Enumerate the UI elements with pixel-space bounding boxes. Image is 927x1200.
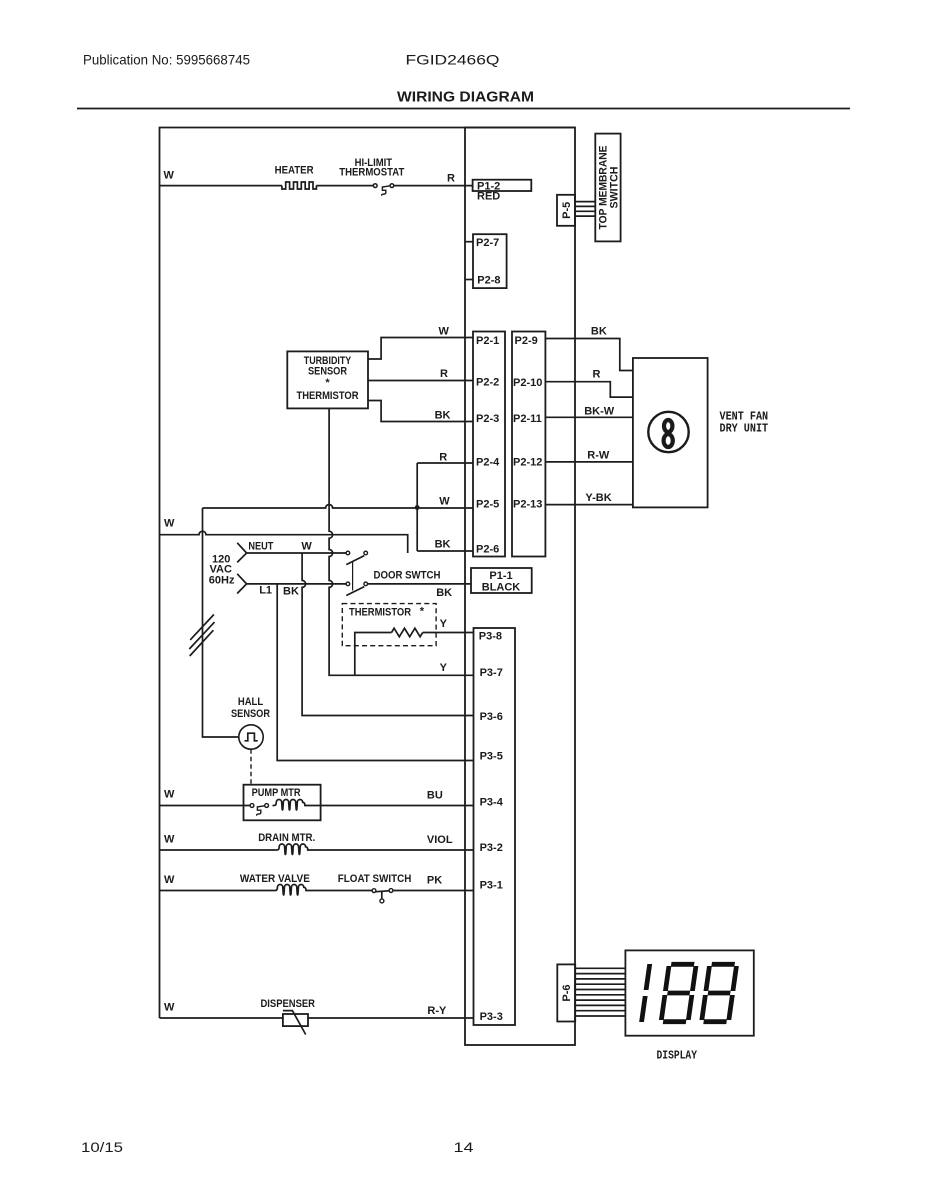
svg-text:BK: BK (435, 539, 451, 551)
float switch float contact (380, 899, 384, 903)
svg-text:P2-6: P2-6 (476, 543, 499, 555)
digit 1 (642, 964, 650, 1022)
wire water valve to float switch (307, 890, 372, 892)
svg-text:P2-7: P2-7 (476, 237, 499, 249)
thermistor dashed box (342, 604, 436, 646)
wire stub P2-8 (465, 279, 473, 281)
wire hi-limit to P1-2 (394, 185, 473, 187)
svg-text:W: W (439, 496, 450, 508)
svg-text:P2-12: P2-12 (513, 457, 542, 469)
machine enclosure box (top and left edges) (160, 128, 576, 1019)
wire turbidity W to P2-1 (368, 338, 473, 360)
svg-text:P2-1: P2-1 (476, 335, 499, 347)
svg-text:THERMOSTAT: THERMOSTAT (339, 167, 404, 179)
svg-text:FLOAT SWITCH: FLOAT SWITCH (338, 873, 412, 885)
svg-text:WIRING DIAGRAM: WIRING DIAGRAM (397, 90, 534, 106)
svg-text:W: W (164, 518, 175, 530)
svg-text:W: W (164, 1002, 175, 1014)
svg-text:THERMISTOR: THERMISTOR (349, 607, 411, 619)
hall sensor pulse glyph (245, 733, 258, 741)
door switch pole 2 contacts (346, 582, 350, 586)
float switch contact right (389, 889, 393, 893)
svg-text:BK: BK (591, 325, 607, 337)
svg-text:VIOL: VIOL (427, 834, 453, 846)
vertical bus W (202.5) from W line down to hall sensor (203, 508, 239, 737)
svg-text:R-W: R-W (587, 449, 610, 461)
svg-text:Y: Y (440, 618, 448, 630)
wire left edge to heater (160, 185, 282, 187)
connector P-6 (557, 964, 575, 1021)
svg-text:PUMP MTR: PUMP MTR (252, 787, 301, 799)
svg-text:DISPLAY: DISPLAY (657, 1049, 698, 1063)
wire P2-11 BK-W to vent fan (545, 416, 633, 418)
wire turbidity R to P2-2 (368, 380, 473, 382)
svg-text:10/15: 10/15 (81, 1139, 123, 1155)
thermistor resistor element (392, 628, 423, 636)
svg-text:R: R (447, 173, 455, 185)
svg-text:RED: RED (477, 191, 500, 203)
svg-text:DRY UNIT: DRY UNIT (720, 421, 769, 435)
svg-text:R: R (439, 452, 447, 464)
title rule (77, 108, 850, 110)
svg-text:P3-8: P3-8 (479, 631, 502, 643)
wire thermistor to P3-8 (423, 632, 474, 634)
vertical bus P2-4 to P2-6 (416, 463, 418, 551)
wire L1 to door switch (247, 583, 346, 585)
svg-text:P-6: P-6 (561, 984, 573, 1001)
wire drain to P3-2 (309, 849, 473, 851)
wires P-5 to membrane switch (575, 201, 595, 203)
svg-text:W: W (164, 834, 175, 846)
junction dot (415, 505, 420, 510)
svg-text:P2-2: P2-2 (476, 377, 499, 389)
svg-text:P2-13: P2-13 (513, 498, 542, 510)
wire NEUT to door switch (247, 552, 346, 554)
thermistor left lead (355, 633, 392, 676)
svg-text:R: R (593, 369, 601, 381)
water valve coil (274, 885, 308, 896)
heater element (282, 182, 316, 189)
connector column P2-9..P2-13 (512, 332, 545, 557)
connector P2-7 / P2-8 (473, 234, 507, 288)
wire BK to P2-6 (417, 550, 473, 552)
control board box (465, 128, 575, 1046)
wire dispenser to P3-3 (308, 1017, 474, 1019)
connector P1-2 (473, 180, 532, 191)
svg-text:BU: BU (427, 790, 443, 802)
hi-limit thermostat contact right (390, 184, 394, 188)
svg-text:NEUT: NEUT (248, 541, 273, 553)
svg-text:60Hz: 60Hz (209, 574, 235, 586)
svg-text:P2-11: P2-11 (513, 413, 542, 425)
svg-text:P3-6: P3-6 (480, 711, 503, 723)
svg-text:FGID2466Q: FGID2466Q (406, 52, 500, 68)
svg-text:SWITCH: SWITCH (609, 166, 621, 208)
NEUT chevron (237, 543, 246, 563)
wire float switch to P3-1 (393, 890, 474, 892)
svg-text:P1-1: P1-1 (489, 570, 512, 582)
connector column P2-1..P2-6 (473, 332, 505, 557)
turbidity sensor box (287, 351, 368, 408)
connector P-5 (557, 195, 575, 226)
wire P2-10 R to vent fan (545, 382, 633, 397)
wire left edge to pump (160, 805, 251, 807)
door switch pole 1 blade (346, 556, 364, 565)
wire turbidity BK to P2-3 (368, 401, 473, 422)
turbidity sensor drop wire (hops W, NEUT, L1) to P3-7 (329, 408, 473, 675)
svg-text:14: 14 (454, 1139, 474, 1155)
svg-text:P3-3: P3-3 (480, 1011, 503, 1023)
drain motor coil (275, 844, 309, 855)
wire left edge to drain motor (160, 849, 276, 851)
ribbon wires P-6 to display (575, 968, 625, 1016)
pump switch contact left (250, 804, 254, 808)
svg-text:THERMISTOR: THERMISTOR (297, 390, 359, 402)
wire P2-4 R (417, 462, 473, 464)
svg-text:W: W (301, 541, 312, 553)
svg-text:HEATER: HEATER (275, 165, 314, 177)
float switch blade (376, 890, 389, 893)
top membrane switch (595, 134, 620, 242)
pump motor coil (273, 799, 307, 810)
hi-limit thermostat blade (382, 186, 390, 196)
svg-text:SENSOR: SENSOR (231, 708, 270, 720)
hall sensor dashed lead (250, 749, 252, 785)
svg-text:P3-4: P3-4 (480, 796, 504, 808)
svg-text:BK-W: BK-W (584, 405, 615, 417)
svg-text:P2-3: P2-3 (476, 413, 499, 425)
pump switch blade (257, 806, 265, 816)
svg-text:BK: BK (435, 410, 451, 422)
vent fan motor circle (648, 412, 688, 452)
door switch pole 1 contacts (346, 551, 350, 555)
wire door switch pole2 to P1-1 (368, 583, 472, 585)
svg-text:BK: BK (283, 586, 299, 598)
BK tap vertical to P3-5 (277, 584, 473, 761)
svg-text:Publication No: 5995668745: Publication No: 5995668745 (83, 52, 250, 68)
svg-text:Y: Y (440, 662, 448, 674)
wire P2-9 BK to vent fan (545, 339, 633, 371)
svg-text:P-5: P-5 (561, 202, 573, 219)
svg-text:P3-7: P3-7 (480, 667, 503, 679)
connector column P3 (474, 628, 516, 1025)
svg-text:L1: L1 (259, 585, 272, 597)
svg-text:WATER VALVE: WATER VALVE (240, 873, 310, 885)
wire pump to P3-4 (306, 805, 473, 807)
svg-text:P3-2: P3-2 (480, 842, 503, 854)
svg-text:P3-5: P3-5 (480, 751, 503, 763)
svg-text:PK: PK (427, 875, 442, 887)
door switch linkage (352, 561, 354, 590)
W tap vertical to P3-6 (hops L1) (302, 553, 473, 716)
svg-text:R-Y: R-Y (427, 1005, 447, 1017)
svg-text:HALL: HALL (238, 696, 264, 708)
svg-text:DISPENSER: DISPENSER (261, 998, 316, 1010)
pump switch contact right (265, 804, 269, 808)
svg-text:DRAIN MTR.: DRAIN MTR. (258, 832, 315, 844)
dispenser diagonal (283, 1011, 306, 1035)
dispenser element (283, 1014, 308, 1026)
svg-text:P3-1: P3-1 (480, 880, 503, 892)
svg-text:P2-10: P2-10 (513, 377, 542, 389)
svg-text:W: W (164, 170, 175, 182)
svg-text:*: * (325, 377, 330, 389)
float switch stem (381, 892, 383, 899)
svg-text:R: R (440, 368, 448, 380)
connector P1-1 (471, 568, 532, 593)
wire W left edge to door switch (hops bus at 202.5) (160, 531, 408, 553)
digit 8 (second) (702, 964, 737, 1021)
wire P2-13 Y-BK to vent fan (545, 504, 633, 506)
door switch pole 2 blade (346, 587, 364, 596)
wire P2-12 R-W to vent fan (545, 461, 633, 463)
wire left edge to water valve (160, 890, 274, 892)
field wiring slashes (190, 615, 214, 640)
hi-limit thermostat contact left (373, 184, 377, 188)
L1 chevron (237, 574, 246, 594)
wire W bus to P2-5 (203, 505, 474, 508)
wire heater to hi-limit (316, 185, 373, 187)
svg-text:P2-5: P2-5 (476, 498, 499, 510)
pump motor box (244, 785, 321, 821)
svg-text:P2-4: P2-4 (476, 457, 500, 469)
svg-text:SENSOR: SENSOR (308, 366, 347, 378)
svg-text:Y-BK: Y-BK (585, 492, 611, 504)
float switch contact left (372, 889, 376, 893)
svg-text:BK: BK (436, 587, 452, 599)
svg-text:P2-9: P2-9 (515, 335, 538, 347)
vent fan 8 glyph (664, 420, 672, 432)
wire stub P2-7 (465, 241, 473, 243)
display seven-segment digits 188 (642, 964, 737, 1022)
vent fan dry unit box (633, 358, 708, 507)
digit 8 (first) (661, 964, 696, 1021)
svg-text:W: W (439, 326, 450, 338)
svg-text:P2-8: P2-8 (477, 275, 500, 287)
svg-text:DOOR SWTCH: DOOR SWTCH (374, 570, 441, 582)
svg-text:*: * (420, 606, 425, 618)
display box (625, 950, 753, 1035)
svg-text:W: W (164, 789, 175, 801)
svg-text:BLACK: BLACK (482, 582, 521, 594)
svg-text:W: W (164, 874, 175, 886)
hall sensor circle (239, 725, 263, 749)
wire left edge to dispenser (160, 1017, 283, 1019)
